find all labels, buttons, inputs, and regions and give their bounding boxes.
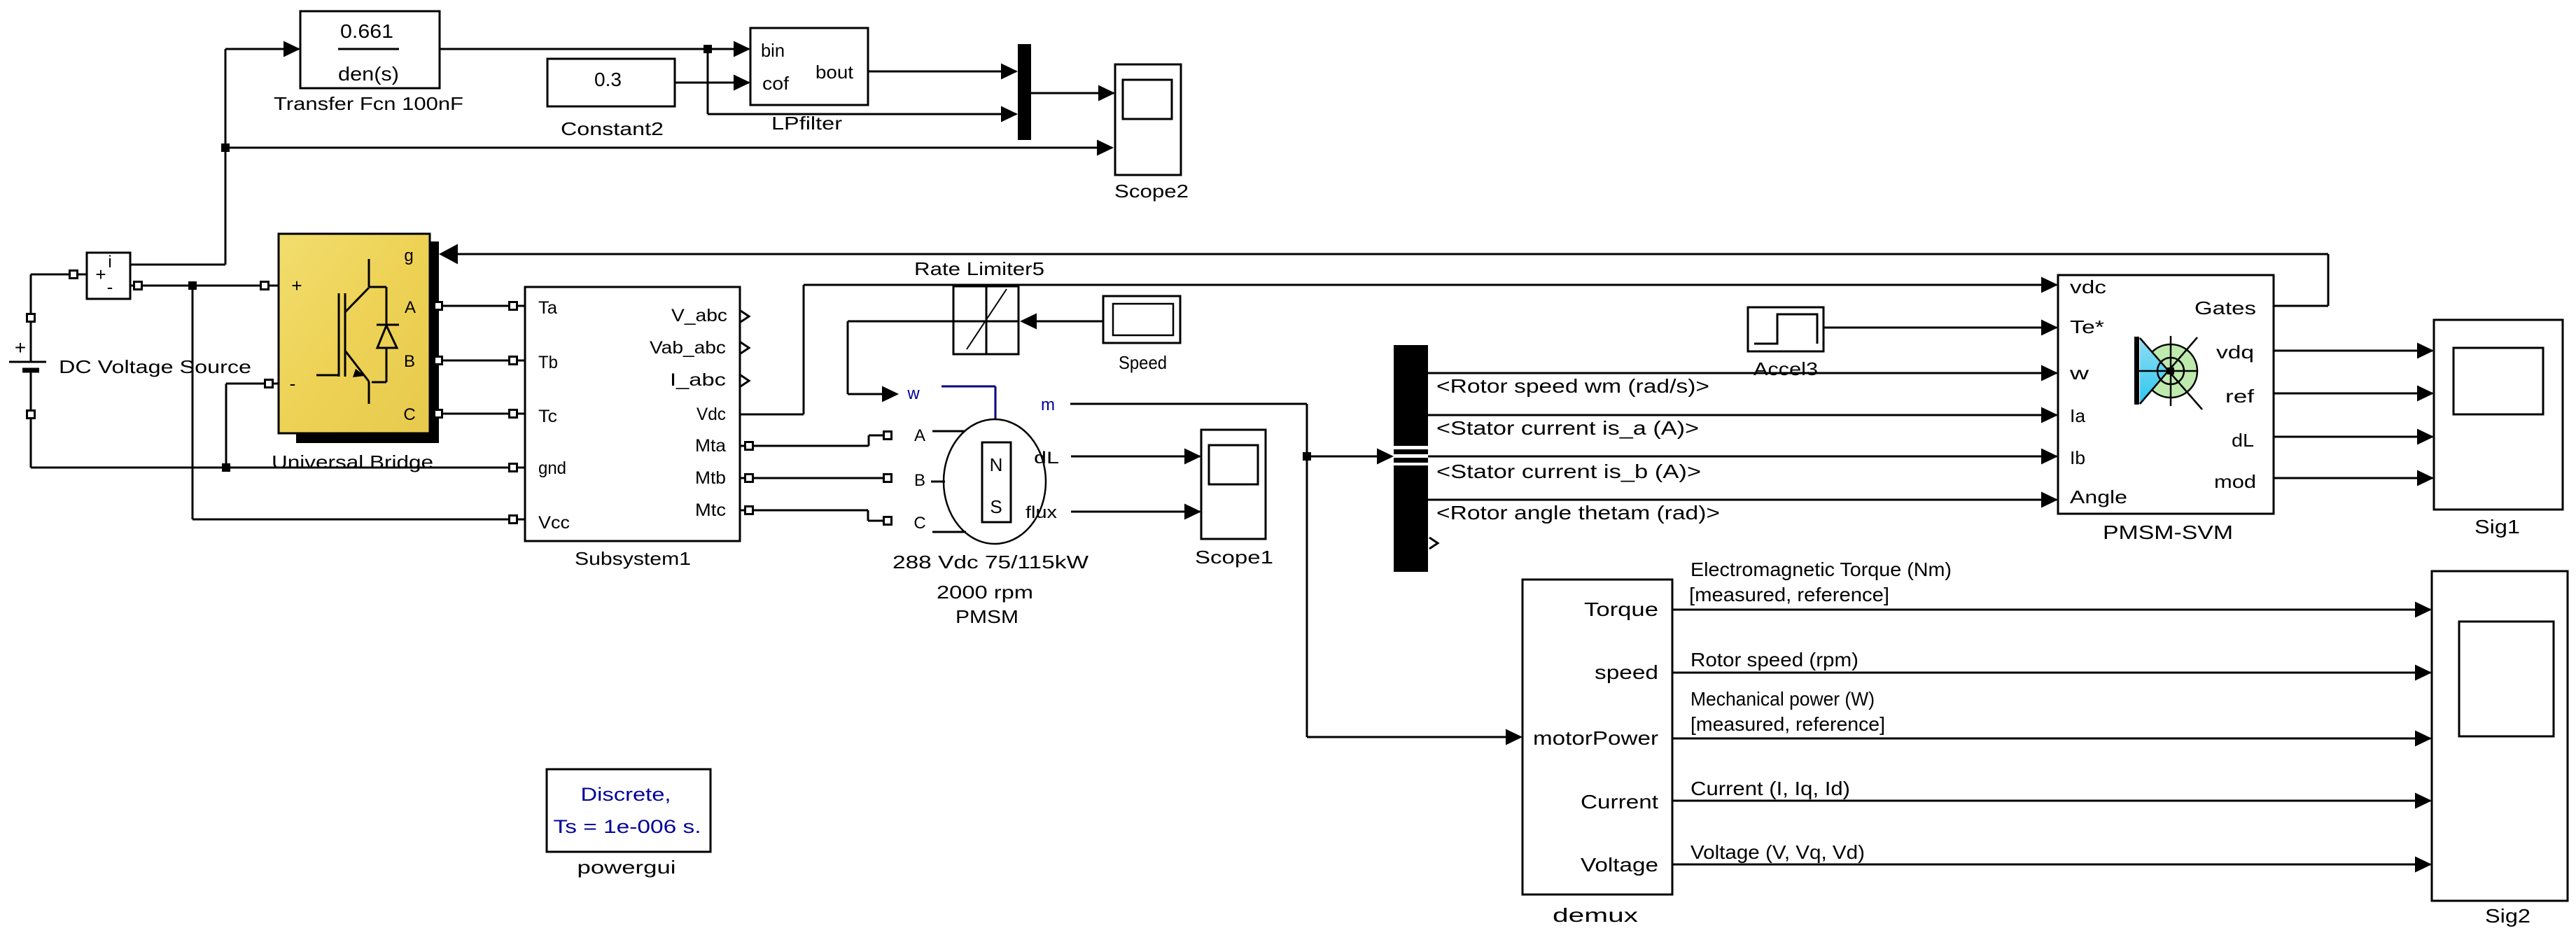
wire Torque to Sig2 <box>1672 609 2430 611</box>
wire Mtc to machine C <box>740 510 884 521</box>
scope Sig1 <box>2434 320 2563 510</box>
port bridge A <box>435 302 442 310</box>
svg-text:w: w <box>906 384 920 403</box>
port i-block input <box>70 271 78 279</box>
battery DC Voltage Source <box>9 321 46 410</box>
svg-text:vdc: vdc <box>2070 276 2106 297</box>
wire branch to Mux input 2 <box>708 49 1016 114</box>
junction TF-out branch <box>703 45 712 53</box>
chevron I_abc <box>741 375 749 386</box>
svg-text:Constant2: Constant2 <box>561 118 664 139</box>
wire machine dL to Scope1 <box>1071 456 1200 458</box>
machine lead A <box>932 430 965 433</box>
port Subsystem1 Mta <box>745 442 753 450</box>
svg-text:Ib: Ib <box>2070 447 2085 468</box>
wire speed to Sig2 <box>1672 672 2430 674</box>
chevron bus selector unconnected output <box>1429 538 1438 549</box>
scope Sig2 <box>2432 571 2568 901</box>
wire i-block out to Universal Bridge + <box>130 285 279 287</box>
svg-text:[measured, reference]: [measured, reference] <box>1689 584 1889 605</box>
block Subsystem1 <box>525 287 740 541</box>
wire Mta to machine A <box>740 435 884 446</box>
svg-text:den(s): den(s) <box>338 63 399 85</box>
wire PMSM-SVM Gates feedback to bridge g <box>456 254 2328 306</box>
machine lead B <box>931 481 945 483</box>
svg-text:bin: bin <box>761 40 785 61</box>
svg-text:C: C <box>403 405 415 424</box>
icon IGBT/diode of Universal Bridge <box>316 259 399 404</box>
svg-text:Voltage (V, Vq, Vd): Voltage (V, Vq, Vd) <box>1690 841 1865 863</box>
machine magnet N/S <box>982 442 1011 522</box>
wire rotor angle thetam to PMSM-SVM Angle <box>1428 499 2057 501</box>
port Subsystem1 Tb <box>510 357 517 365</box>
svg-text:bout: bout <box>815 62 854 83</box>
svg-text:cof: cof <box>762 73 790 94</box>
svg-text:Ia: Ia <box>2070 405 2086 426</box>
block Rate Limiter5 <box>953 286 1018 354</box>
wire Universal Bridge - down to gnd line <box>226 384 279 468</box>
svg-text:vdq: vdq <box>2216 342 2254 363</box>
scope Scope2 <box>1115 64 1181 175</box>
svg-text:dL: dL <box>1034 449 1059 468</box>
block Accel3 <box>1748 307 1823 351</box>
svg-text:powergui: powergui <box>577 857 676 878</box>
wire rotor speed wm to PMSM-SVM w <box>1428 372 2057 374</box>
port bridge - <box>265 380 273 388</box>
wire dL out to Sig1 <box>2274 436 2432 438</box>
wire mod to Sig1 <box>2274 477 2432 479</box>
svg-text:Mta: Mta <box>695 436 726 456</box>
machine lead C <box>932 531 966 533</box>
svg-text:gnd: gnd <box>538 458 566 478</box>
block Speed <box>1103 296 1180 343</box>
port i-block output <box>134 282 142 290</box>
wire LPfilter bout to Mux input 1 <box>868 71 1016 73</box>
wire ref to Sig1 <box>2274 393 2432 395</box>
svg-text:PMSM: PMSM <box>955 606 1018 627</box>
wire machine m to bus selector and demux <box>1070 404 1506 737</box>
wire motorPower to Sig2 <box>1672 738 2430 740</box>
svg-text:PMSM-SVM: PMSM-SVM <box>2103 521 2233 543</box>
svg-text:Vcc: Vcc <box>538 513 570 533</box>
svg-text:motorPower: motorPower <box>1533 727 1658 749</box>
wire Mux to Scope2 input 1 <box>1031 92 1114 94</box>
machine PMSM ellipse <box>944 419 1046 544</box>
port machine A <box>884 432 892 440</box>
svg-text:Mtc: Mtc <box>695 500 726 520</box>
svg-text:g: g <box>404 246 413 265</box>
svg-text:S: S <box>990 496 1002 517</box>
port Subsystem1 Mtc <box>745 507 753 514</box>
wire Rate Limiter5 out to machine w <box>848 321 953 394</box>
svg-text:Rate Limiter5: Rate Limiter5 <box>914 258 1044 279</box>
wire Mtb to machine B <box>740 477 884 479</box>
svg-text:mod: mod <box>2214 471 2256 492</box>
port Subsystem1 Ta <box>510 302 517 310</box>
svg-text:0.661: 0.661 <box>340 20 393 42</box>
svg-text:Gates: Gates <box>2194 297 2256 318</box>
bus selector <box>1394 345 1428 572</box>
icon PMSM-SVM vector diagram <box>2134 337 2139 405</box>
svg-text:w: w <box>2069 363 2089 384</box>
wire Speed to Rate Limiter5 (leftward) <box>1037 321 1103 323</box>
svg-text:m: m <box>1041 395 1055 414</box>
svg-text:Discrete,: Discrete, <box>581 784 671 805</box>
svg-text:Current: Current <box>1581 791 1658 813</box>
svg-text:-: - <box>107 276 113 297</box>
machine w lead (blue) <box>941 386 995 419</box>
wire bridge A to Ta <box>430 305 525 307</box>
svg-text:dL: dL <box>2232 430 2254 451</box>
svg-text:C: C <box>913 514 925 533</box>
chevron V_abc <box>741 311 749 322</box>
svg-text:speed: speed <box>1595 661 1658 683</box>
wire bridge C to Tc <box>430 413 525 415</box>
block Universal Bridge shadow <box>296 241 439 443</box>
svg-text:B: B <box>914 471 925 490</box>
wire i-signal branch to Scope2 input 2 <box>225 147 1112 149</box>
svg-text:A: A <box>914 426 925 445</box>
svg-text:Sig2: Sig2 <box>2485 905 2530 927</box>
block powergui <box>547 769 710 852</box>
svg-text:ref: ref <box>2225 386 2255 407</box>
scope Scope1 <box>1201 430 1266 539</box>
svg-text:0.3: 0.3 <box>594 69 622 90</box>
port Subsystem1 gnd <box>510 464 517 472</box>
svg-text:Accel3: Accel3 <box>1753 358 1818 379</box>
wire Voltage to Sig2 <box>1672 864 2430 866</box>
junction i-out / Vcc branch <box>188 281 197 290</box>
svg-text:Vdc: Vdc <box>696 405 726 424</box>
svg-text:2000 rpm: 2000 rpm <box>937 582 1033 603</box>
svg-text:Voltage: Voltage <box>1581 854 1658 876</box>
port Subsystem1 Vcc <box>510 516 517 524</box>
port Subsystem1 Mtb <box>745 475 753 482</box>
port battery - <box>27 411 35 419</box>
svg-text:Speed: Speed <box>1119 352 1167 373</box>
svg-text:Mechanical power (W): Mechanical power (W) <box>1690 688 1875 710</box>
svg-text:Scope2: Scope2 <box>1114 181 1189 202</box>
wire Subsystem1 Vdc to PMSM-SVM vdc <box>740 285 2057 414</box>
junction gnd / bridge-minus <box>222 463 230 472</box>
block demux <box>1522 580 1672 895</box>
junction m-wire to bus selector <box>1303 452 1311 461</box>
svg-text:Subsystem1: Subsystem1 <box>575 548 691 569</box>
svg-text:<Rotor speed wm (rad/s)>: <Rotor speed wm (rad/s)> <box>1436 375 1709 397</box>
chevron Vab_abc <box>741 342 749 353</box>
svg-text:Ts = 1e-006 s.: Ts = 1e-006 s. <box>554 816 701 837</box>
wire Accel3 to PMSM-SVM Te* <box>1823 327 2057 329</box>
port Subsystem1 Tc <box>510 410 517 418</box>
svg-text:<Stator current is_b (A)>: <Stator current is_b (A)> <box>1436 461 1701 482</box>
svg-text:Torque: Torque <box>1584 598 1658 620</box>
svg-text:<Stator current is_a (A)>: <Stator current is_a (A)> <box>1436 417 1699 439</box>
wire DC source minus to Subsystem1 gnd <box>31 418 525 468</box>
wire machine flux to Scope1 <box>1071 511 1200 513</box>
wire Current to Sig2 <box>1672 800 2430 802</box>
svg-text:Electromagnetic Torque (Nm): Electromagnetic Torque (Nm) <box>1690 559 1952 580</box>
svg-text:Angle: Angle <box>2070 486 2127 507</box>
wire stator current is_a to PMSM-SVM Ia <box>1428 414 2057 416</box>
wire vdq to Sig1 <box>2274 350 2432 352</box>
svg-text:A: A <box>405 298 416 317</box>
svg-text:+: + <box>95 264 106 285</box>
wire stator current is_b to PMSM-SVM Ib <box>1428 456 2057 458</box>
wire Constant2 to LPfilter cof <box>675 82 749 84</box>
port bridge C <box>435 410 442 418</box>
svg-text:Rotor speed (rpm): Rotor speed (rpm) <box>1690 649 1858 671</box>
svg-text:Mtb: Mtb <box>695 468 726 488</box>
block Constant2 <box>547 59 675 106</box>
wire Transfer Fcn out to LPfilter bin <box>440 48 749 50</box>
svg-text:Scope1: Scope1 <box>1195 547 1273 568</box>
wire branch down to Subsystem1 Vcc <box>192 286 525 519</box>
block PMSM-SVM <box>2058 275 2274 514</box>
svg-text:I_abc: I_abc <box>670 370 726 390</box>
svg-text:N: N <box>990 454 1003 475</box>
block Transfer Fcn 100nF <box>300 11 440 88</box>
svg-text:V_abc: V_abc <box>671 306 727 325</box>
port bridge B <box>435 357 442 365</box>
wire bridge B to Tb <box>430 360 525 362</box>
svg-text:Current (I, Iq, Id): Current (I, Iq, Id) <box>1690 778 1850 799</box>
svg-text:Ta: Ta <box>538 298 557 318</box>
port battery + <box>27 314 35 322</box>
svg-text:Tc: Tc <box>538 407 557 426</box>
svg-text:<Rotor angle thetam (rad)>: <Rotor angle thetam (rad)> <box>1436 502 1720 524</box>
svg-text:i: i <box>108 253 111 272</box>
svg-text:288 Vdc 75/115kW: 288 Vdc 75/115kW <box>892 552 1089 573</box>
port machine B <box>884 475 892 482</box>
svg-text:B: B <box>404 352 415 371</box>
svg-text:Sig1: Sig1 <box>2474 516 2520 538</box>
svg-text:+: + <box>15 337 26 358</box>
port machine C <box>884 517 892 525</box>
svg-text:demux: demux <box>1553 904 1638 926</box>
svg-text:Vab_abc: Vab_abc <box>650 338 726 358</box>
svg-text:Te*: Te* <box>2070 316 2104 337</box>
junction i-signal/Scope2 branch <box>221 143 230 152</box>
block Universal Bridge <box>279 234 430 433</box>
svg-text:Universal Bridge: Universal Bridge <box>272 451 433 472</box>
svg-text:+: + <box>291 275 302 296</box>
svg-text:Tb: Tb <box>538 353 558 372</box>
svg-text:-: - <box>290 373 296 394</box>
port bridge + <box>261 282 269 290</box>
svg-text:LPfilter: LPfilter <box>771 113 842 134</box>
mux Mux1 <box>1018 44 1031 140</box>
block Current Measurement i <box>87 253 130 299</box>
svg-text:DC Voltage Source: DC Voltage Source <box>59 356 251 377</box>
svg-text:Transfer Fcn 100nF: Transfer Fcn 100nF <box>274 93 463 114</box>
svg-text:flux: flux <box>1025 503 1057 522</box>
block LPfilter <box>750 28 868 105</box>
wire DC source plus to i-block <box>31 274 87 314</box>
wire i-signal up to Transfer Fcn input <box>130 49 299 265</box>
wire m branch to bus selector <box>1307 456 1377 458</box>
svg-text:[measured, reference]: [measured, reference] <box>1690 713 1885 735</box>
